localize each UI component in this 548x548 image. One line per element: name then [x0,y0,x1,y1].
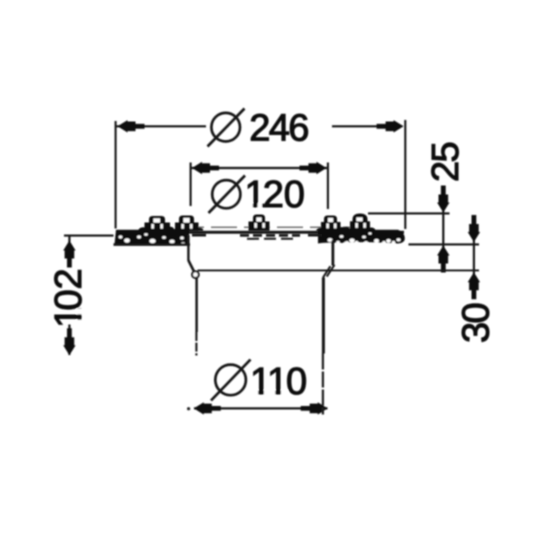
pipe left wall [195,278,198,333]
label text 246 [249,107,309,149]
label diameter-symbol 246 [208,109,245,147]
label text 25 (rotated) [425,141,467,182]
bolt 4 [321,216,341,231]
dimension 30: dimension line [473,217,475,298]
flange plate top line [117,231,404,234]
dimension 110: dimension line [194,407,328,409]
bolt 5 [350,214,370,231]
svg-text:2: 2 [249,107,270,149]
dimension 25: upper arrowhead (points down) [437,186,449,213]
pipe right wall [322,278,325,354]
svg-text:3: 3 [456,322,498,343]
left chamfer fillet circle [192,271,199,278]
flange middle stipple dashes [192,235,322,239]
svg-text:4: 4 [269,107,290,149]
label text 30 (rotated) [456,302,498,343]
svg-text:1: 1 [267,361,288,403]
pipe right wall extension (to dimension 110) [322,354,324,415]
dimension 25: lower arrowhead (points up) [437,246,449,273]
dimension 30: lower arrowhead (points up) [468,272,480,299]
dimension 120: dimension line [192,167,328,169]
right chamfer double edge [327,265,335,277]
svg-text:2: 2 [263,174,284,216]
dimension 246: right extension line [404,120,406,229]
dimension 120: left arrowhead [192,162,219,174]
dimension 110: left extension remnant dot [187,407,190,410]
dimension 120: right arrowhead [300,162,327,174]
svg-text:5: 5 [425,141,467,162]
flange left bottom edge line [114,243,191,246]
dimension 102: upper arrowhead (points up) [63,241,75,268]
bolt 1 [145,216,171,231]
dimension 120: right extension line [327,163,329,210]
label diameter-symbol 120 [209,176,246,214]
bolt 3 [249,215,270,231]
svg-text:0: 0 [284,174,305,216]
label text 120 [245,174,305,216]
dimension 30: flange underside extension line [409,243,480,245]
label text 102 (rotated) [48,268,90,328]
collar left wall [187,235,189,261]
inner ledge line [198,269,480,271]
bolt 2 [175,216,199,231]
flange right stippled section [316,227,405,245]
dimension 110: right arrowhead [301,402,328,414]
dimension 25: top extension line [368,212,450,214]
left chamfer edge [188,260,194,271]
dimension 102: lower arrowhead (points down) [63,328,75,355]
svg-text:0: 0 [48,289,90,310]
dimension 246: dimension line [117,125,207,127]
dimension 246: right arrowhead [377,120,404,132]
dimension 246: left arrowhead [118,120,145,132]
dimension 102: dimension line upper segment [68,237,70,268]
svg-text:2: 2 [48,268,90,289]
svg-text:6: 6 [288,107,309,149]
dimension 120: left extension line [190,163,192,207]
dimension 246: left extension line [115,121,117,229]
dimension 110: left arrowhead [194,402,221,414]
flange left stippled section [115,227,204,246]
svg-text:0: 0 [456,302,498,323]
dimension 102: top extension line [64,235,114,237]
svg-text:0: 0 [286,361,307,403]
dimension 25: dimension line [442,186,444,271]
dimension 30: upper arrowhead (points down) [468,215,480,242]
label text 110 [250,361,307,403]
svg-text:2: 2 [425,161,467,182]
label diameter-symbol 110 [211,360,251,401]
dimension 102: dimension line lower segment [68,325,70,356]
pipe left wall lower (faint dashed) [195,332,197,356]
collar right wall [331,240,334,266]
clamping ring faint top edge [145,226,372,228]
